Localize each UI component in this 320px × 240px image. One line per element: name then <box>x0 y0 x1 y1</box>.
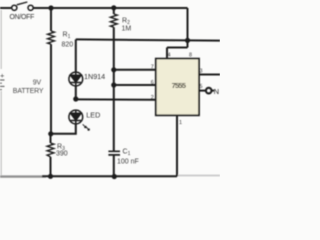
wire pin1 to bottom rail <box>176 115 178 176</box>
svg-text:1N914: 1N914 <box>84 72 105 81</box>
node junction pin6 tap <box>111 82 116 87</box>
switch S1 pole circle <box>12 5 17 10</box>
wire left rail R1 to LED junction <box>50 44 52 134</box>
terminal circle pin5 <box>206 88 212 94</box>
wire pin4 stub <box>166 48 168 59</box>
wire pin3 output line <box>199 74 220 76</box>
wire C1 bottom lead <box>113 155 115 176</box>
wire diode chain top <box>75 39 77 72</box>
switch S1 throw circle <box>28 5 33 10</box>
diode D1 1N914 <box>69 72 83 86</box>
svg-text:3: 3 <box>200 69 203 75</box>
node junction between diodes <box>73 96 78 101</box>
svg-text:1M: 1M <box>122 26 132 33</box>
battery B1 lead top <box>0 10 2 69</box>
wire pin4-pin8 bracket <box>167 47 188 49</box>
svg-text:4: 4 <box>168 52 171 58</box>
node junction LED chain to left rail <box>48 131 53 136</box>
wire LED bottom L to left rail <box>51 124 76 134</box>
wire after terminal <box>212 90 214 92</box>
node junction R3 bottom rail <box>48 174 53 179</box>
wire pin2 line from diode junction to IC <box>76 98 157 100</box>
battery B1 plates <box>0 80 5 90</box>
battery B1 lead bottom <box>0 91 2 175</box>
node junction pin7 tap <box>111 67 116 72</box>
svg-text:820: 820 <box>62 41 74 48</box>
resistor R3 390 zigzag <box>47 143 54 157</box>
svg-text:9V: 9V <box>33 80 42 87</box>
wire pin6 line <box>114 84 157 86</box>
wire bottom rail faint right <box>177 175 220 177</box>
svg-text:390: 390 <box>56 150 68 157</box>
wire pin5 stub <box>199 90 205 92</box>
wire left rail to R1 <box>50 8 52 31</box>
svg-text:+: + <box>0 71 5 80</box>
node junction V+ line with right drop <box>185 38 190 43</box>
svg-text:6: 6 <box>151 80 154 86</box>
wire right drop from top rail to pin8 <box>187 8 189 48</box>
node junction switch-rail <box>48 5 53 10</box>
wire top rail switch to right corner <box>33 7 187 9</box>
wire R3 to bottom rail <box>50 157 52 176</box>
wire left rail to R3 <box>50 134 52 143</box>
wire bottom rail faded left <box>0 175 46 177</box>
resistor R2 1M lead <box>113 8 115 14</box>
svg-text:7: 7 <box>151 65 154 71</box>
wire V+ horizontal line to diode chain and right edge <box>76 39 220 40</box>
resistor R1 820 zigzag <box>48 31 55 44</box>
diode D2 LED <box>69 110 83 124</box>
LED arrows <box>83 124 90 130</box>
svg-text:2: 2 <box>151 95 154 101</box>
node junction C1 bottom rail <box>112 174 117 179</box>
svg-text:7555: 7555 <box>172 81 186 90</box>
op-amp U1 7555 body <box>156 59 199 116</box>
svg-text:BATTERY: BATTERY <box>13 88 44 95</box>
wire D1 to junction <box>75 86 77 99</box>
wire R2 bottom down to C1 (through pin7/pin6 taps) <box>113 27 115 151</box>
resistor R2 1M zigzag <box>110 14 117 27</box>
svg-text:LED: LED <box>86 111 100 120</box>
wire pin7 line <box>114 69 157 71</box>
svg-text:ON/OFF: ON/OFF <box>10 14 35 21</box>
svg-text:100 nF: 100 nF <box>117 159 139 166</box>
capacitor C1 plates <box>108 151 120 155</box>
svg-text:5: 5 <box>200 84 203 90</box>
svg-text:1: 1 <box>179 120 182 126</box>
wire bottom rail main <box>42 175 177 177</box>
wire top rail left to switch <box>0 7 11 9</box>
svg-text:8: 8 <box>189 52 192 58</box>
svg-text:N: N <box>214 87 219 96</box>
node junction R2 top <box>111 5 116 10</box>
switch S1 lever <box>17 2 28 5</box>
